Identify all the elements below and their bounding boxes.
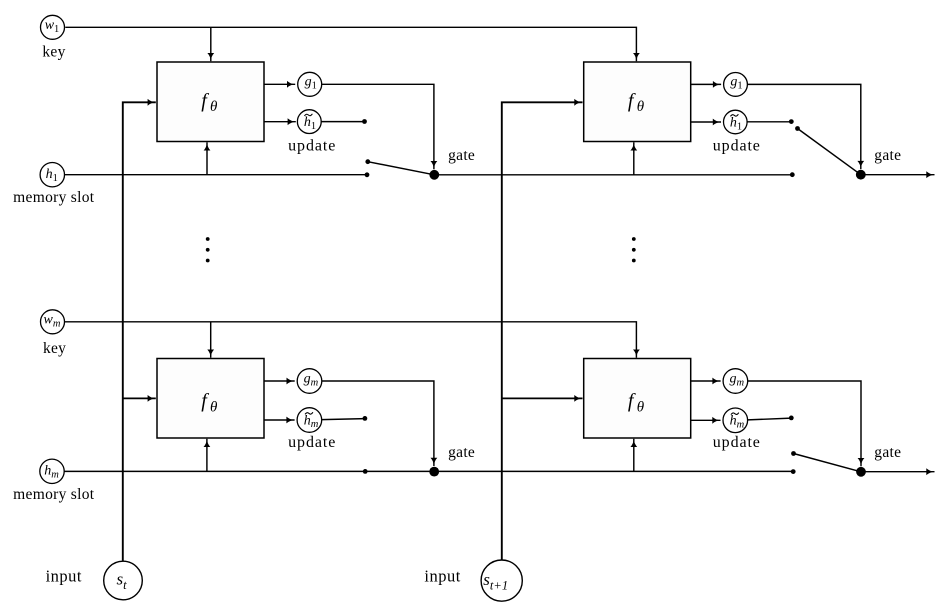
svg-text:key: key [43, 340, 66, 357]
svg-text:input: input [424, 566, 460, 585]
svg-text:gate: gate [874, 444, 901, 461]
svg-text:input: input [46, 566, 82, 585]
svg-text:gate: gate [448, 147, 475, 164]
svg-text:update: update [288, 138, 336, 155]
svg-text:update: update [713, 138, 761, 155]
svg-text:memory slot: memory slot [13, 189, 95, 206]
svg-text:key: key [42, 44, 65, 61]
svg-text:update: update [713, 434, 761, 451]
svg-text:gate: gate [874, 147, 901, 164]
svg-text:update: update [288, 434, 336, 451]
svg-text:gate: gate [448, 444, 475, 461]
svg-text:memory slot: memory slot [13, 486, 95, 503]
